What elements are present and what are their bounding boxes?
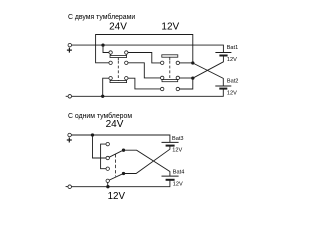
svg-text:24V: 24V xyxy=(106,119,124,130)
node junction bottom rail xyxy=(106,185,109,188)
battery Bat2 xyxy=(215,85,231,87)
wire S1 mid-right to S2 mid-left xyxy=(128,63,160,78)
terminal + (bottom circuit) xyxy=(68,133,72,137)
svg-text:С двумя тумблерами: С двумя тумблерами xyxy=(68,13,135,21)
svg-text:12V: 12V xyxy=(172,147,182,153)
wire branch to S1 top-left xyxy=(103,45,109,52)
svg-text:12V: 12V xyxy=(227,90,237,96)
wire S2 bottom-right up to node D2 xyxy=(180,78,193,89)
wire D4 diagonal to Bat3- xyxy=(124,146,170,174)
svg-text:24V: 24V xyxy=(109,21,127,32)
wire diagonal D2 to Bat1- xyxy=(193,56,224,79)
wire S2 top-right to node D1 xyxy=(180,62,193,64)
node D4 (pole 2 pivot) xyxy=(122,172,125,175)
wire branch to S3 pole xyxy=(93,135,107,158)
wire bottom rail to Bat4 xyxy=(72,180,170,187)
battery Bat3 xyxy=(162,141,179,143)
battery Bat1 xyxy=(215,52,231,54)
battery Bat4 xyxy=(162,175,179,177)
svg-text:12V: 12V xyxy=(227,57,237,63)
wire D3 diagonal to Bat4+ xyxy=(124,150,170,176)
wire S1 top-right to S2 top-left xyxy=(128,53,160,63)
terminal - (bottom circuit) xyxy=(68,185,72,189)
svg-text:Bat1: Bat1 xyxy=(227,45,239,51)
svg-text:Bat4: Bat4 xyxy=(173,169,185,175)
wire 24V loop (S1 mid-left up over to right rail) xyxy=(96,35,193,63)
switch S2 (right toggle, DPDT) xyxy=(161,55,180,91)
wire +rail to Bat1 xyxy=(72,45,224,52)
terminal - (top circuit) xyxy=(68,95,72,99)
switch S1 (left toggle, DPDT) xyxy=(109,51,128,83)
node junction +rail xyxy=(101,43,104,46)
wire diagonal D1 to Bat2+ xyxy=(193,63,224,86)
node junction -rail xyxy=(101,95,104,98)
wire S3 contact 4 to bottom rail xyxy=(107,183,109,187)
svg-text:12V: 12V xyxy=(173,181,183,187)
svg-text:12V: 12V xyxy=(161,21,179,32)
wire -rail to Bat2 xyxy=(72,89,224,96)
wire S2 mid-right to node D2 xyxy=(180,77,193,79)
svg-text:Bat3: Bat3 xyxy=(172,136,184,142)
switch S3 (single toggle) xyxy=(106,142,122,182)
terminal + (top circuit) xyxy=(68,43,72,47)
svg-text:Bat2: Bat2 xyxy=(227,78,239,84)
svg-text:12V: 12V xyxy=(108,191,126,202)
node junction top rail xyxy=(91,133,94,136)
node D2 xyxy=(191,76,194,79)
wire top rail to Bat3 xyxy=(71,135,169,142)
node D3 (pole 1 pivot) xyxy=(122,149,125,152)
wire bracket joining throws 1 and 3 xyxy=(101,144,106,169)
wire S1 bottom-right to S2 bottom-left xyxy=(128,78,160,89)
wire S1 bottom-left to -rail xyxy=(103,78,109,96)
node D1 xyxy=(191,61,194,64)
